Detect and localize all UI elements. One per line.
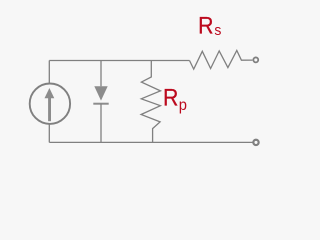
current source I1 arrow: [45, 88, 55, 121]
diode D1 triangle: [94, 86, 107, 100]
wire diode bottom lead: [100, 104, 102, 143]
svg-text:s: s: [214, 22, 221, 39]
wire current-source bottom lead: [48, 125, 50, 143]
wire current-source top lead: [48, 61, 50, 84]
resistor Rs zigzag with leads: [190, 51, 253, 70]
svg-text:p: p: [179, 97, 187, 114]
wire bottom horizontal: [49, 141, 252, 143]
wire diode top lead: [100, 61, 102, 87]
current source I1 circle: [30, 84, 70, 124]
terminal node top-right: [253, 57, 258, 62]
svg-text:R: R: [198, 13, 213, 40]
diode D1 cathode bar: [93, 103, 108, 105]
svg-text:R: R: [163, 85, 178, 112]
wire top horizontal: [49, 60, 189, 62]
resistor Rp zigzag with leads: [141, 61, 160, 143]
terminal node bottom-right: [253, 140, 258, 145]
